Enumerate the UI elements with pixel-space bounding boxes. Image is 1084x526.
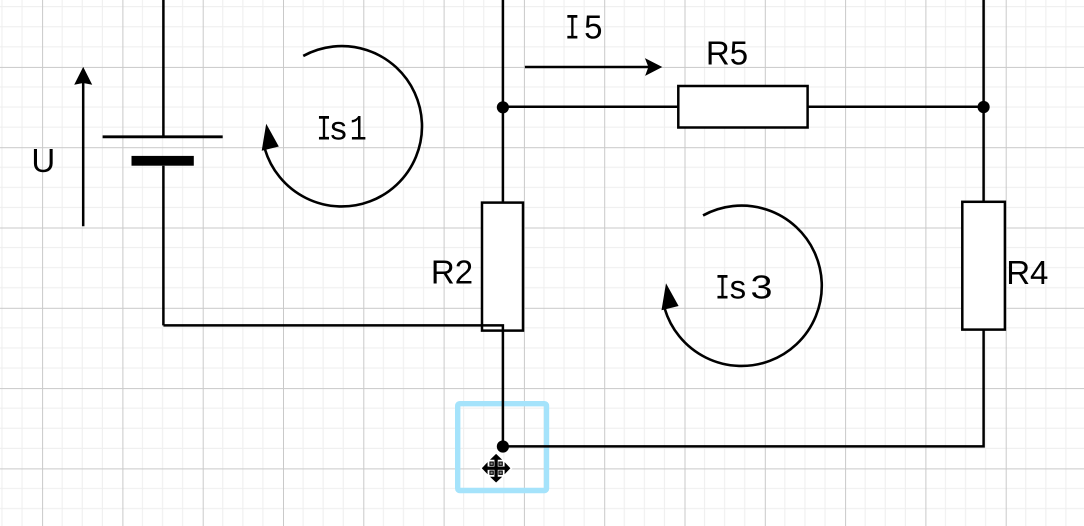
resistor R5 [678, 86, 807, 128]
arrow I5 (branch current) [525, 66, 649, 69]
wire node1 to R5 [503, 106, 678, 109]
svg-text:I: I [565, 10, 580, 50]
wire top center through node to R2 [502, 0, 505, 203]
move cursor icon [480, 452, 513, 485]
node junction bottom [497, 440, 509, 452]
voltage source U short thick plate [132, 156, 194, 166]
resistor R4 [962, 202, 1005, 330]
wire top right through node2 to R4 [982, 0, 985, 202]
svg-text:R5: R5 [706, 34, 748, 71]
wire R5 to node2 [808, 106, 984, 109]
loop current Is1 [262, 46, 422, 206]
arrow U (voltage reference arrow) [82, 79, 85, 226]
voltage source U long plate [103, 135, 223, 138]
svg-text:I: I [715, 270, 730, 310]
wire source U bottom lead [162, 166, 165, 326]
node junction top left [497, 101, 509, 113]
node junction top right [978, 101, 990, 113]
wire source U to R2 left side and down to bottom node [163, 325, 503, 446]
svg-text:U: U [31, 142, 55, 179]
svg-text:1: 1 [350, 111, 367, 151]
loop current Is3 [662, 206, 822, 366]
svg-text:R2: R2 [431, 254, 473, 291]
svg-text:3: 3 [751, 269, 773, 306]
resistor R2 [482, 203, 523, 331]
svg-text:s: s [730, 269, 747, 306]
wire R4 bottom to bottom node [503, 330, 984, 447]
svg-text:s: s [330, 110, 347, 147]
svg-text:R4: R4 [1006, 254, 1048, 291]
svg-text:I: I [317, 111, 332, 151]
wire from top edge to source U [162, 0, 165, 137]
selection highlight box [458, 404, 547, 491]
svg-text:5: 5 [584, 9, 602, 46]
